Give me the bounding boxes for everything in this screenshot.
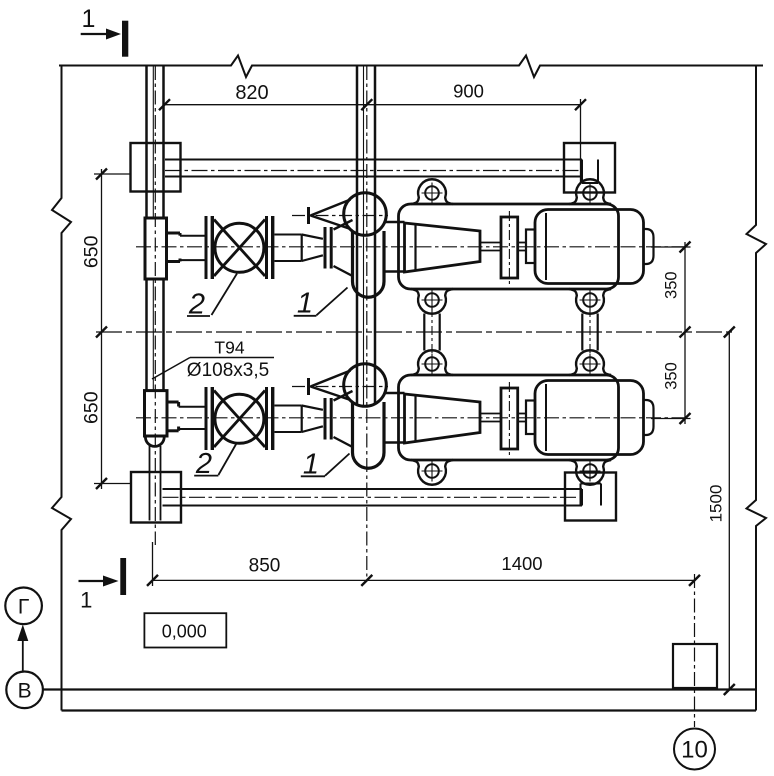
ticks bottom dim: [147, 575, 158, 586]
pipe tag leader: [152, 358, 274, 380]
left riser pipe walls: [147, 66, 164, 391]
svg-text:1: 1: [82, 5, 96, 33]
label 2 lower: [194, 443, 237, 481]
beam lower centerline: [163, 496, 583, 498]
wall line left: [52, 66, 71, 711]
pipe tee to valve lower: [179, 407, 205, 429]
wall line right: [747, 66, 767, 711]
svg-text:Т94: Т94: [214, 338, 244, 358]
wall line top: [59, 56, 763, 78]
svg-text:350: 350: [663, 271, 681, 299]
floor line bottom: [43, 690, 756, 711]
svg-text:1: 1: [80, 588, 92, 613]
left riser end cap: [145, 435, 164, 447]
svg-text:350: 350: [663, 362, 681, 390]
tee lower: [145, 391, 168, 436]
svg-text:1: 1: [297, 288, 313, 320]
beam upper: [165, 160, 598, 184]
left riser lower stub: [150, 446, 161, 521]
tee upper branch stub: [167, 233, 181, 262]
left riser centerline: [154, 66, 156, 545]
dim line bottom 850/1400: [153, 542, 695, 586]
support block lower-left: [131, 472, 181, 523]
grid bubble G: [5, 588, 42, 625]
ticks right dim: [680, 242, 691, 253]
level mark box 0,000: [144, 613, 226, 647]
svg-text:10: 10: [681, 737, 708, 764]
arrow V to G: [17, 625, 28, 672]
dim line 1500: [728, 332, 730, 690]
svg-text:1500: 1500: [706, 485, 725, 523]
beam lower: [163, 484, 602, 506]
column: [673, 644, 717, 688]
mid reference line: [96, 331, 734, 333]
support block upper-right: [564, 143, 615, 193]
svg-text:0,000: 0,000: [162, 622, 207, 642]
svg-text:1400: 1400: [501, 553, 542, 574]
middle riser centerline: [366, 66, 368, 577]
pipe tee to valve upper: [180, 236, 205, 260]
pump unit 1 (upper): [136, 179, 688, 314]
section mark bottom: [79, 558, 127, 613]
grid bubble 10: [674, 729, 715, 770]
ticks 1500: [724, 327, 735, 338]
middle riser pipe walls: [357, 66, 375, 406]
ticks top dim: [159, 99, 170, 110]
label 1 lower: [301, 449, 350, 481]
label 2 upper: [187, 274, 237, 321]
section mark top: [81, 5, 129, 57]
grid bubble V: [6, 672, 43, 709]
dim line right 350/350: [651, 242, 691, 424]
middle riser inner line: [363, 66, 365, 406]
svg-text:850: 850: [249, 556, 281, 577]
rail left between baseplates: [424, 314, 439, 351]
dim line top 820/900: [165, 99, 581, 183]
svg-text:Ø108x3,5: Ø108x3,5: [187, 360, 269, 381]
svg-text:В: В: [18, 680, 32, 703]
svg-text:820: 820: [235, 82, 268, 104]
svg-text:900: 900: [453, 81, 484, 102]
rail left centerline: [431, 308, 433, 356]
column axis line: [694, 574, 696, 727]
svg-text:650: 650: [81, 235, 103, 268]
dim line left 650/650: [94, 169, 131, 489]
tee lower branch stub: [167, 402, 179, 431]
svg-text:Г: Г: [18, 596, 29, 619]
ticks left dim: [96, 169, 107, 180]
beam upper centerline: [165, 170, 582, 172]
rail right centerline: [589, 308, 591, 356]
support block lower-right: [565, 473, 616, 521]
svg-text:650: 650: [81, 391, 103, 424]
rail right between baseplates: [582, 314, 597, 351]
pump unit 2 (lower): [136, 350, 688, 485]
left riser inner line: [152, 66, 154, 391]
label 1 upper: [294, 288, 348, 320]
support block upper-left: [131, 143, 181, 192]
tee upper: [145, 218, 167, 279]
